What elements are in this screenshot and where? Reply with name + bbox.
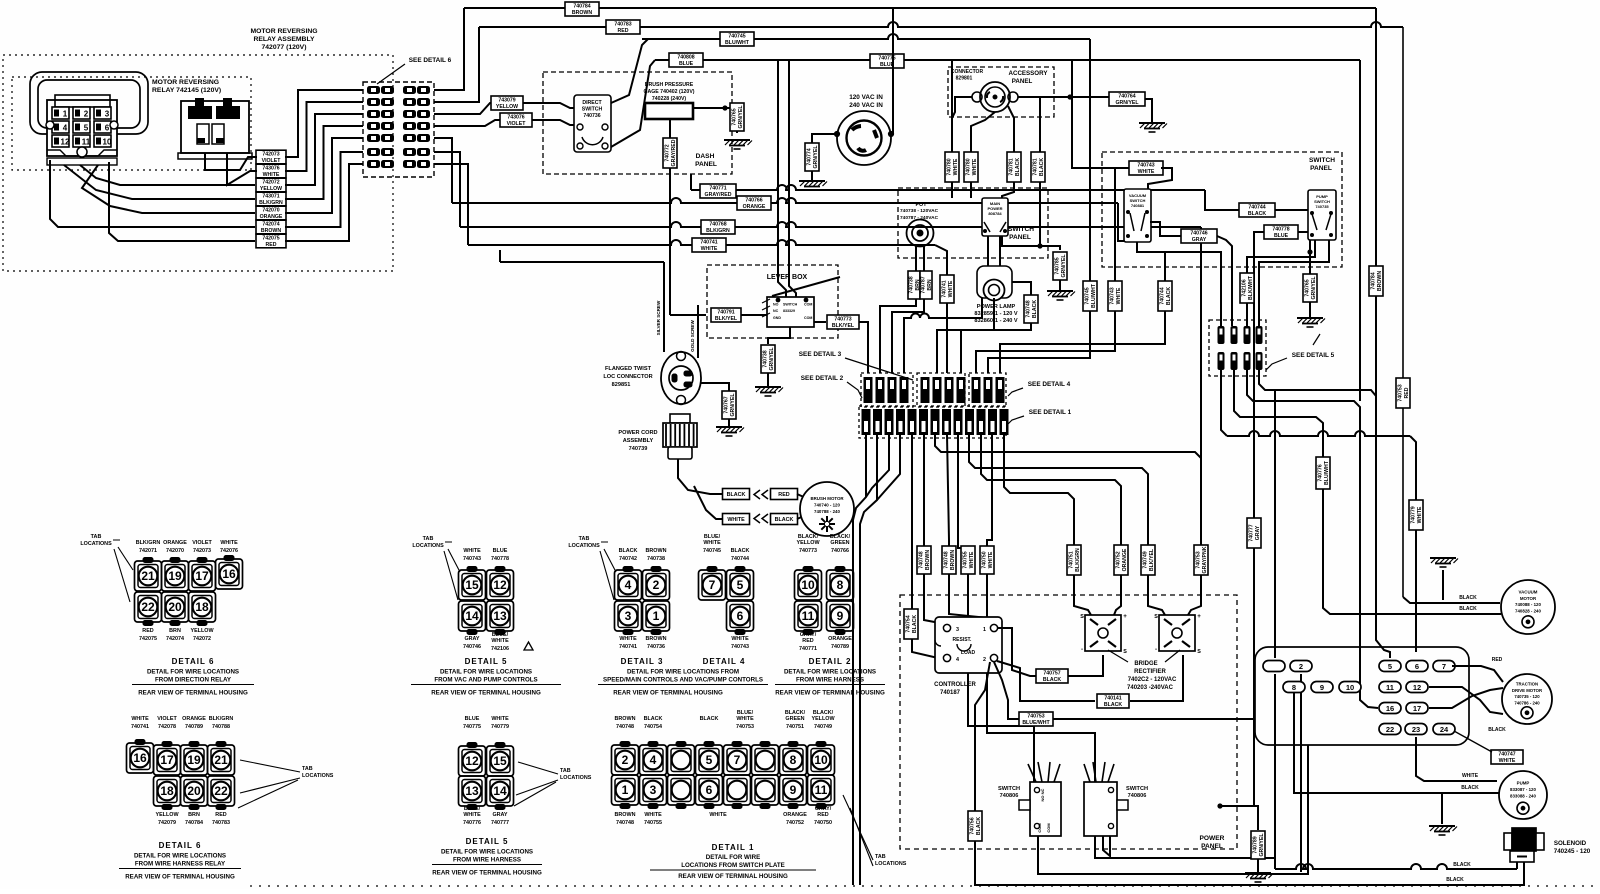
svg-text:740772: 740772	[664, 144, 670, 161]
svg-text:5: 5	[1388, 662, 1392, 671]
lever switch 833329	[762, 277, 840, 327]
wire to 740785	[1002, 236, 1060, 250]
wire blue to right switch panel	[1072, 60, 1131, 168]
svg-text:740806: 740806	[1000, 793, 1019, 799]
svg-text:740780: 740780	[946, 158, 952, 175]
wire t4 braid	[877, 435, 900, 500]
svg-text:740754: 740754	[644, 724, 662, 730]
svg-text:WHITE: WHITE	[727, 517, 745, 523]
svg-text:WHITE: WHITE	[709, 812, 727, 818]
svg-text:TAB: TAB	[302, 766, 313, 772]
svg-text:1: 1	[622, 783, 629, 797]
svg-text:20: 20	[168, 600, 182, 614]
svg-text:GRN/YEL: GRN/YEL	[738, 105, 744, 129]
svg-text:740739: 740739	[629, 446, 648, 452]
svg-text:740203 -240VAC: 740203 -240VAC	[1127, 685, 1174, 691]
svg-text:GREEN: GREEN	[830, 540, 849, 546]
svg-text:3: 3	[650, 783, 657, 797]
wire terminal 8 to pump black	[1294, 687, 1499, 793]
relay K2 motor reversing relay 742145 body	[178, 98, 252, 159]
svg-text:GRAY/RED: GRAY/RED	[705, 192, 732, 198]
svg-text:742074: 742074	[166, 636, 184, 642]
svg-text:FROM WIRE HARNESS RELAY: FROM WIRE HARNESS RELAY	[135, 861, 226, 868]
svg-text:SEE DETAIL 5: SEE DETAIL 5	[1292, 352, 1335, 359]
wire vacuum switch to detail5 a	[1137, 242, 1221, 326]
svg-text:829801: 829801	[956, 76, 973, 82]
upper terminal strip	[864, 377, 1005, 403]
svg-text:22: 22	[141, 600, 155, 614]
wire connector row7 drop	[434, 164, 468, 245]
svg-text:2: 2	[1299, 662, 1303, 671]
svg-text:21: 21	[141, 569, 155, 583]
detail 5b terminal housing	[459, 743, 514, 810]
junction dot switch panel	[1037, 243, 1042, 248]
svg-text:POT: POT	[915, 202, 927, 208]
wire relay to 742073	[205, 153, 257, 170]
wire 740784 brown right drop to terminal 5	[1376, 8, 1390, 658]
svg-text:740751: 740751	[786, 724, 804, 730]
bridge rectifier 2	[1154, 613, 1201, 655]
svg-text:WHITE: WHITE	[644, 812, 662, 818]
svg-text:832859-1 - 120 V: 832859-1 - 120 V	[974, 311, 1017, 317]
wire relay K1 to 742074	[50, 160, 255, 227]
svg-text:COM: COM	[1037, 823, 1042, 833]
label 740764 GRN/YEL	[1109, 92, 1145, 106]
svg-text:BROWN: BROWN	[615, 716, 636, 722]
svg-text:740741: 740741	[941, 280, 947, 297]
svg-text:BLU/WHT: BLU/WHT	[1324, 460, 1330, 485]
svg-text:YELLOW: YELLOW	[796, 540, 820, 546]
svg-text:RELAY ASSEMBLY: RELAY ASSEMBLY	[253, 36, 315, 43]
svg-text:740773: 740773	[799, 548, 817, 554]
wire drop to lever box b	[789, 60, 796, 297]
wire 740743 drop to strip	[976, 168, 1115, 373]
power panel dashed box	[900, 595, 1237, 849]
ground lever box	[755, 387, 783, 396]
wire long run y436	[1227, 431, 1410, 436]
svg-text:16: 16	[222, 567, 236, 581]
label 740750 WHITE vertical	[980, 546, 994, 574]
svg-text:740788 - 240: 740788 - 240	[814, 509, 840, 514]
terminal 24	[1433, 724, 1455, 735]
detail 6a terminal housing	[135, 556, 243, 626]
svg-text:740776: 740776	[463, 820, 481, 826]
wire lever switch gnd	[768, 327, 790, 344]
wire pot to strip b	[892, 246, 924, 373]
svg-text:5: 5	[974, 395, 978, 402]
label 742070 ORANGE	[256, 206, 286, 220]
svg-text:740744: 740744	[1159, 287, 1165, 304]
terminal 10	[1339, 682, 1361, 693]
svg-text:2: 2	[983, 657, 986, 663]
svg-text:740753: 740753	[1027, 713, 1044, 719]
svg-text:GRN/YEL: GRN/YEL	[1311, 276, 1317, 300]
wire orange to vacuum switch	[1118, 203, 1124, 241]
svg-text:740748: 740748	[616, 724, 634, 730]
svg-text:FROM WIRE HARNESS: FROM WIRE HARNESS	[796, 677, 864, 684]
svg-text:ACCESSORY: ACCESSORY	[1009, 70, 1049, 77]
junction dot power panel right	[1217, 803, 1222, 808]
svg-text:S: S	[1080, 614, 1084, 620]
svg-text:SEE DETAIL 1: SEE DETAIL 1	[1029, 409, 1072, 416]
svg-text:3: 3	[625, 609, 632, 623]
svg-text:740747: 740747	[1498, 751, 1515, 757]
wire plug hot from top line	[891, 9, 893, 134]
wire switch to lamp b	[999, 236, 1001, 266]
ground pump switch	[1297, 318, 1325, 327]
svg-text:742071: 742071	[139, 548, 157, 554]
svg-text:4: 4	[956, 657, 959, 663]
svg-text:740748: 740748	[943, 551, 949, 568]
svg-text:740778: 740778	[491, 556, 509, 562]
detail 5 terminal block	[1218, 326, 1263, 370]
svg-text:SWITCH: SWITCH	[582, 107, 603, 113]
svg-text:7402C2 - 120VAC: 7402C2 - 120VAC	[1128, 677, 1177, 683]
svg-text:742073: 742073	[193, 548, 211, 554]
wire t3 braid	[866, 435, 889, 497]
wire t13 nest 4	[1004, 435, 1074, 595]
svg-text:742106: 742106	[491, 646, 509, 652]
svg-text:740750: 740750	[981, 551, 987, 568]
svg-text:DETAIL 2: DETAIL 2	[809, 657, 852, 666]
svg-text:TAB: TAB	[579, 536, 590, 542]
svg-text:4: 4	[959, 395, 963, 402]
svg-text:BLACK: BLACK	[1459, 595, 1477, 601]
label 740738 BRN vertical	[908, 271, 921, 299]
wire 74207x to connector row 2	[285, 102, 363, 171]
svg-text:BROWN: BROWN	[615, 812, 636, 818]
svg-text:12: 12	[61, 138, 70, 147]
svg-text:740757: 740757	[1043, 670, 1060, 676]
svg-text:GRN/YEL: GRN/YEL	[1061, 254, 1067, 278]
svg-text:ORANGE: ORANGE	[828, 636, 852, 642]
svg-text:740741: 740741	[131, 724, 149, 730]
svg-text:DETAIL 5: DETAIL 5	[466, 837, 509, 846]
svg-text:740756: 740756	[969, 817, 975, 834]
label 742074 BROWN	[256, 220, 286, 234]
svg-text:RED: RED	[215, 812, 226, 818]
svg-text:9: 9	[878, 395, 882, 402]
svg-text:740741: 740741	[619, 644, 637, 650]
svg-text:740766: 740766	[831, 548, 849, 554]
svg-text:COM: COM	[804, 316, 812, 320]
svg-text:740752: 740752	[786, 820, 804, 826]
label 740785 GRN/YEL vertical	[1053, 252, 1067, 280]
svg-text:740755: 740755	[644, 820, 662, 826]
svg-text:RECTIFIER: RECTIFIER	[1134, 669, 1166, 675]
wire 74207x to connector row 7	[285, 164, 363, 241]
svg-text:4: 4	[945, 413, 949, 420]
svg-text:8: 8	[837, 578, 844, 592]
wire 740777 gray long drop	[1254, 232, 1264, 806]
svg-text:8: 8	[790, 753, 797, 767]
svg-text:3: 3	[956, 627, 959, 633]
wire accessory to 740781 black a	[1002, 106, 1014, 200]
wire 74207x to connector row 4	[285, 126, 363, 199]
svg-text:17: 17	[160, 753, 174, 767]
svg-text:BLACK: BLACK	[912, 615, 918, 633]
wire pump switch to 740765	[1309, 240, 1311, 274]
wire pump switch to 740778	[1298, 231, 1308, 233]
svg-text:WHITE: WHITE	[969, 551, 975, 568]
svg-text:10: 10	[814, 753, 828, 767]
label RED	[771, 489, 798, 500]
svg-text:742076: 742076	[220, 548, 238, 554]
svg-text:BLK/YEL: BLK/YEL	[832, 323, 855, 329]
svg-text:16: 16	[1386, 704, 1394, 713]
svg-text:WHITE: WHITE	[972, 158, 978, 175]
svg-text:SEE DETAIL 2: SEE DETAIL 2	[801, 375, 844, 382]
ground 740767	[716, 427, 744, 436]
svg-text:740141: 740141	[1104, 695, 1121, 701]
svg-text:740755: 740755	[962, 551, 968, 568]
switch 740806 b	[1084, 762, 1128, 836]
svg-text:BLK/GRN: BLK/GRN	[259, 200, 283, 206]
label 740780 WHITE vertical a	[945, 152, 959, 182]
wire 740780 white a drop	[951, 60, 953, 198]
svg-text:BLACK: BLACK	[731, 548, 750, 554]
wire 740768 blu/grn long run	[460, 222, 1201, 227]
svg-text:740749: 740749	[814, 724, 832, 730]
wire pin2 to 740753	[994, 662, 1020, 719]
label 740808 BLUE	[669, 53, 703, 67]
label 740755 WHITE vertical	[961, 546, 975, 574]
vacuum switch 740881	[1124, 189, 1151, 242]
wire 740743 to vacuum switch	[1148, 168, 1172, 189]
svg-text:GOLD SCREW: GOLD SCREW	[690, 320, 695, 352]
svg-text:PANEL: PANEL	[1310, 165, 1332, 172]
wire nest1 to rectifier2 plus	[1188, 595, 1201, 615]
svg-text:BLACK: BLACK	[1248, 211, 1266, 217]
lever box dashed box	[707, 265, 838, 338]
wire 740141 to rectifier2	[1130, 655, 1183, 701]
wire 740753 to gray vertical	[1053, 718, 1254, 720]
label 742075 RED	[256, 234, 286, 248]
svg-text:WHITE: WHITE	[463, 812, 481, 818]
svg-text:REAR VIEW OF TERMINAL HOUS: REAR VIEW OF TERMINAL HOUSING	[432, 870, 542, 877]
junction dot	[722, 105, 727, 110]
svg-text:BRUSH MOTOR: BRUSH MOTOR	[810, 496, 844, 501]
label 740783 RED	[606, 20, 640, 34]
svg-text:1: 1	[899, 413, 903, 420]
svg-text:740765: 740765	[1304, 279, 1310, 296]
svg-text:POWER: POWER	[1200, 835, 1225, 842]
svg-text:GRN/YEL: GRN/YEL	[769, 347, 775, 371]
svg-text:742073: 742073	[262, 151, 279, 157]
accessory panel dashed box	[948, 67, 1054, 117]
svg-text:740740 - 120: 740740 - 120	[814, 503, 840, 508]
wire switch a bottom	[1038, 745, 1308, 874]
label 740771 GRAY/RED	[700, 184, 736, 198]
label 740748 BROWN vertical a	[917, 546, 931, 574]
svg-text:740743: 740743	[731, 644, 749, 650]
wire switch b loop	[1103, 836, 1110, 856]
svg-text:BLK/GRN: BLK/GRN	[209, 716, 234, 722]
svg-text:S: S	[1154, 614, 1158, 620]
junction dot pump switch	[1307, 249, 1312, 254]
svg-text:740787: 740787	[920, 276, 926, 293]
svg-text:742075: 742075	[262, 235, 279, 241]
wire switch b bottom	[1095, 836, 1275, 858]
svg-text:740789: 740789	[185, 724, 203, 730]
detail 4 terminal housing	[699, 567, 754, 635]
svg-text:DETAIL FOR WIRE: DETAIL FOR WIRE	[706, 854, 760, 861]
wire direct switch to 740808 line	[611, 60, 655, 147]
ground	[1429, 826, 1457, 835]
wire 740766 orange long run	[452, 198, 1118, 203]
label 740791 BLK/YEL	[711, 308, 741, 322]
svg-text:5: 5	[737, 578, 744, 592]
svg-text:12: 12	[493, 578, 507, 592]
svg-text:13: 13	[493, 609, 507, 623]
svg-text:742072: 742072	[193, 636, 211, 642]
wire 740745 blu/wht run	[642, 34, 1090, 39]
potentiometer 740738	[907, 220, 934, 247]
svg-text:9: 9	[1320, 683, 1324, 692]
svg-text:LOCATIONS: LOCATIONS	[560, 775, 592, 781]
svg-text:14: 14	[493, 784, 507, 798]
label 740777 GRAY vertical	[1247, 518, 1261, 548]
terminal 16	[1379, 703, 1401, 714]
relay K1 terminal circles	[46, 121, 118, 129]
svg-text:742106: 742106	[1241, 279, 1247, 296]
label 740768 BLK/GRN	[701, 220, 735, 234]
dash panel dashed box	[543, 72, 732, 174]
svg-text:LOCATIONS FROM SWITCH PLATE: LOCATIONS FROM SWITCH PLATE	[681, 862, 785, 869]
svg-text:SWITCH: SWITCH	[1008, 226, 1034, 233]
svg-text:740773: 740773	[834, 316, 851, 322]
svg-text:ORANGE: ORANGE	[163, 540, 187, 546]
svg-text:NC: NC	[773, 309, 779, 313]
wire relay K1 to 742075	[109, 162, 255, 241]
svg-text:19: 19	[168, 569, 182, 583]
wire 740785 to ground	[1059, 280, 1061, 290]
wire t9 to switch 740806 a	[958, 435, 1034, 782]
svg-text:WHITE: WHITE	[131, 716, 149, 722]
svg-text:+: +	[1123, 613, 1127, 620]
label 740754 BLACK vertical	[904, 609, 918, 639]
vacuum motor	[1501, 580, 1555, 634]
svg-text:9: 9	[837, 609, 844, 623]
svg-text:740746: 740746	[463, 644, 481, 650]
relay K1 wire loops	[30, 72, 148, 134]
wire silver stub	[499, 250, 501, 262]
wire 740784 brown top run	[464, 7, 1376, 9]
svg-text:RED: RED	[1492, 657, 1503, 663]
svg-text:3: 3	[968, 413, 972, 420]
terminal 7	[1433, 661, 1455, 672]
svg-text:BLU/WHT: BLU/WHT	[1091, 283, 1097, 308]
svg-text:BLK/YEL: BLK/YEL	[1149, 548, 1155, 571]
label 743071 BLK/GRN	[256, 192, 286, 206]
direct switch 740736	[574, 95, 611, 152]
wire direct switch to 740745 line	[611, 39, 648, 103]
wire 740771 gray/red run	[691, 185, 1205, 190]
svg-text:LOC CONNECTOR: LOC CONNECTOR	[603, 374, 652, 380]
connector terminal pairs	[367, 86, 430, 168]
svg-text:743076: 743076	[262, 165, 279, 171]
svg-text:POWER CORD: POWER CORD	[618, 430, 657, 436]
label 740773 BLK/YEL	[827, 315, 859, 329]
svg-text:740753: 740753	[1195, 551, 1201, 568]
detail 6b terminal housing	[127, 740, 235, 810]
label 740775 BLUE	[870, 54, 904, 68]
wire detail5 c2 to vacuum motor	[1234, 370, 1501, 614]
svg-text:BLACK: BLACK	[1032, 300, 1038, 318]
svg-text:PUMP: PUMP	[1517, 781, 1530, 786]
svg-text:COM: COM	[1046, 823, 1051, 833]
wire lamp to strip 2	[937, 298, 994, 373]
svg-text:743079: 743079	[498, 97, 515, 103]
svg-text:1: 1	[991, 413, 995, 420]
svg-text:TAB: TAB	[423, 536, 434, 542]
svg-text:7: 7	[1002, 413, 1006, 420]
wire t8 to controller pin 1	[947, 435, 992, 622]
svg-text:NO: NO	[773, 303, 779, 307]
svg-text:SWITCH: SWITCH	[1309, 157, 1335, 164]
svg-text:740745: 740745	[728, 33, 745, 39]
svg-text:LEVER BOX: LEVER BOX	[767, 274, 808, 281]
wire plug to 740774	[812, 134, 837, 143]
svg-text:740744: 740744	[731, 556, 749, 562]
wire pin1 to 740757	[998, 628, 1036, 676]
svg-text:+: +	[1197, 613, 1201, 620]
svg-text:YELLOW: YELLOW	[811, 716, 835, 722]
svg-text:BLACK: BLACK	[619, 548, 638, 554]
svg-text:BRIDGE: BRIDGE	[1134, 661, 1157, 667]
wire terminal 17 to traction	[1429, 688, 1503, 708]
svg-text:740754: 740754	[905, 615, 911, 632]
label 740787 BRN vertical	[920, 271, 933, 299]
svg-text:SWITCH: SWITCH	[783, 303, 798, 307]
svg-text:740784: 740784	[1370, 272, 1376, 289]
wire accessory to 740780 white a	[952, 97, 972, 198]
label 740781 BLACK vertical b	[1031, 152, 1045, 182]
svg-text:WHITE: WHITE	[701, 246, 718, 252]
svg-text:808784: 808784	[988, 211, 1002, 216]
wire solenoid black a	[1275, 864, 1517, 869]
svg-text:740780: 740780	[965, 158, 971, 175]
svg-text:BLU/WHT: BLU/WHT	[725, 40, 750, 46]
relay K1 terminal housing	[47, 95, 117, 165]
wire terminal 7 to traction red	[1452, 666, 1503, 682]
accessory connector 829801	[972, 82, 1018, 112]
label 742106 BLK/WHT vertical	[1240, 273, 1254, 303]
svg-text:6: 6	[986, 395, 990, 402]
wire y436 drop to terminal 6	[1410, 436, 1416, 652]
svg-text:12: 12	[1413, 683, 1421, 692]
svg-text:2: 2	[622, 753, 629, 767]
svg-text:SILVER SCREW: SILVER SCREW	[656, 300, 661, 335]
terminal strip lower box	[859, 406, 1006, 438]
ground 740764	[1139, 123, 1167, 132]
svg-text:GRAY: GRAY	[1192, 237, 1207, 243]
svg-text:WHITE: WHITE	[220, 540, 238, 546]
wire terminal 12 to traction	[1429, 687, 1503, 714]
wire pump to ground	[1441, 793, 1443, 824]
svg-text:1: 1	[63, 110, 68, 119]
svg-text:DETAIL FOR WIRE LOCATIONS: DETAIL FOR WIRE LOCATIONS	[134, 853, 226, 860]
twist-lock receptacle	[834, 111, 893, 165]
wire black to motor	[797, 515, 806, 519]
svg-text:RED: RED	[802, 638, 813, 644]
wire nest2 to rectifier2	[1148, 595, 1165, 615]
wire gold screw	[697, 305, 699, 358]
svg-text:BROWN: BROWN	[646, 636, 667, 642]
label 740753 GRAY/PNK vertical	[1194, 545, 1208, 575]
svg-text:BLUE: BLUE	[679, 61, 694, 67]
svg-text:740753: 740753	[1397, 384, 1403, 401]
